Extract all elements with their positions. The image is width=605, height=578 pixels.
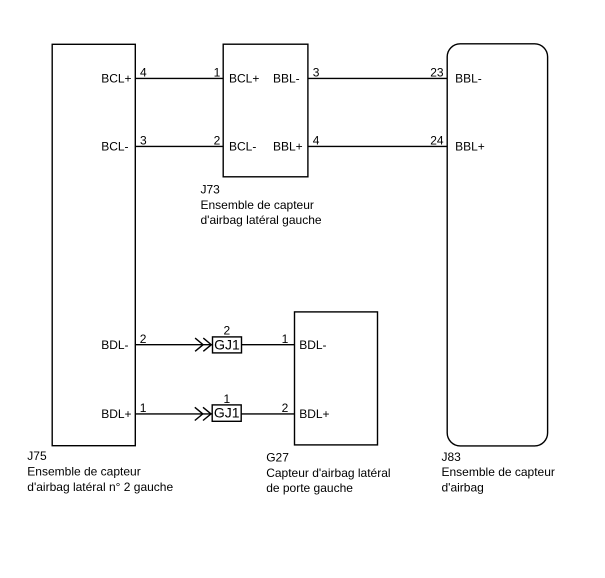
svg-text:BCL-: BCL- (229, 140, 256, 154)
svg-text:1: 1 (214, 66, 221, 80)
svg-text:3: 3 (140, 134, 147, 148)
svg-text:GJ1: GJ1 (214, 337, 240, 353)
svg-text:1: 1 (140, 401, 147, 415)
svg-text:4: 4 (313, 134, 320, 148)
svg-text:BDL-: BDL- (101, 338, 128, 352)
svg-text:GJ1: GJ1 (214, 405, 240, 421)
svg-text:BBL+: BBL+ (273, 140, 303, 154)
svg-text:23: 23 (430, 66, 444, 80)
svg-text:2: 2 (214, 134, 221, 148)
svg-text:1: 1 (282, 332, 289, 346)
svg-text:d'airbag: d'airbag (442, 481, 484, 495)
svg-text:3: 3 (313, 66, 320, 80)
svg-text:2: 2 (140, 332, 147, 346)
svg-text:Ensemble de capteur: Ensemble de capteur (201, 198, 314, 212)
svg-text:BDL+: BDL+ (299, 407, 329, 421)
svg-text:Capteur d'airbag latéral: Capteur d'airbag latéral (266, 466, 390, 480)
svg-text:G27: G27 (266, 451, 289, 465)
svg-text:Ensemble de capteur: Ensemble de capteur (27, 464, 140, 478)
svg-text:J83: J83 (442, 450, 462, 464)
svg-text:d'airbag latéral n° 2 gauche: d'airbag latéral n° 2 gauche (27, 480, 173, 494)
svg-text:J73: J73 (201, 183, 221, 197)
svg-text:BBL-: BBL- (455, 72, 482, 86)
svg-text:BCL+: BCL+ (101, 72, 131, 86)
svg-text:Ensemble de capteur: Ensemble de capteur (442, 465, 555, 479)
svg-text:d'airbag latéral gauche: d'airbag latéral gauche (201, 213, 322, 227)
svg-text:4: 4 (140, 66, 147, 80)
svg-text:2: 2 (282, 401, 289, 415)
svg-text:de porte gauche: de porte gauche (266, 481, 353, 495)
svg-text:BCL+: BCL+ (229, 72, 259, 86)
svg-text:BDL-: BDL- (299, 338, 326, 352)
svg-text:BBL-: BBL- (273, 72, 300, 86)
svg-text:J75: J75 (27, 449, 47, 463)
svg-text:24: 24 (430, 134, 444, 148)
svg-text:BBL+: BBL+ (455, 140, 485, 154)
svg-text:BDL+: BDL+ (101, 407, 131, 421)
svg-text:2: 2 (223, 324, 230, 338)
svg-text:BCL-: BCL- (101, 140, 128, 154)
